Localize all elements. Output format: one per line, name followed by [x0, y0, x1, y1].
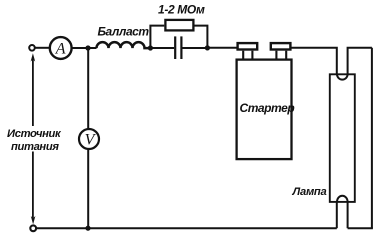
svg-text:питания: питания — [11, 141, 59, 153]
voltmeter V — [79, 129, 99, 149]
svg-text:Стартер: Стартер — [240, 101, 295, 115]
junction dot bottom (voltmeter tap) — [85, 226, 90, 231]
ammeter A — [50, 37, 72, 59]
lamp tube — [330, 74, 355, 202]
lamp top filament arc — [337, 74, 348, 79]
capacitor C plate left — [174, 36, 176, 59]
svg-text:Лампа: Лампа — [292, 186, 327, 198]
terminal bottom-left — [30, 225, 36, 231]
ballast inductor L — [97, 42, 151, 48]
source arrow head down — [31, 216, 36, 224]
svg-text:Источник: Источник — [7, 128, 62, 140]
wire right side down — [371, 48, 373, 229]
capacitor C right wire — [182, 47, 207, 49]
lamp bottom-left lead — [336, 202, 338, 228]
starter terminal 2 cap — [271, 43, 291, 49]
wire top: terminal to ammeter — [35, 47, 50, 49]
RC branch right vertical wire — [195, 26, 208, 48]
svg-text:1-2 МОм: 1-2 МОм — [158, 3, 205, 17]
junction node left of RC block — [148, 45, 153, 50]
svg-text:A: A — [55, 41, 66, 58]
wire voltmeter branch upper — [87, 48, 89, 129]
terminal top-left — [29, 45, 35, 51]
starter terminal 1 stem — [243, 51, 252, 60]
wire top: RC block to starter terminal 1 — [207, 47, 236, 49]
lamp bottom filament arc — [337, 196, 348, 202]
RC branch left vertical wire — [150, 26, 164, 48]
resistor R 1-2 MOhm — [165, 20, 193, 31]
junction dot top (voltmeter tap) — [85, 45, 90, 50]
wire voltmeter branch lower — [87, 150, 89, 229]
starter terminal 1 cap — [238, 43, 258, 49]
source arrow shaft upper — [32, 58, 34, 126]
wire: lamp top-right lead up and right — [348, 48, 372, 75]
source arrow shaft lower — [32, 152, 34, 220]
source arrow head up — [31, 53, 36, 61]
capacitor C left wire — [150, 47, 174, 49]
capacitor C plate right — [180, 36, 182, 59]
lamp bottom-right lead — [347, 202, 349, 228]
wire bottom right segment — [348, 227, 373, 229]
wire: starter terminal 2 to lamp top-left lead — [291, 48, 337, 75]
starter terminal 2 stem — [276, 51, 286, 60]
starter box — [237, 60, 292, 160]
wire top: ammeter to ballast start — [72, 47, 97, 49]
wire bottom: terminal to lamp bottom-left lead — [36, 227, 337, 229]
junction node right of RC block — [205, 45, 210, 50]
svg-text:Балласт: Балласт — [98, 25, 150, 39]
